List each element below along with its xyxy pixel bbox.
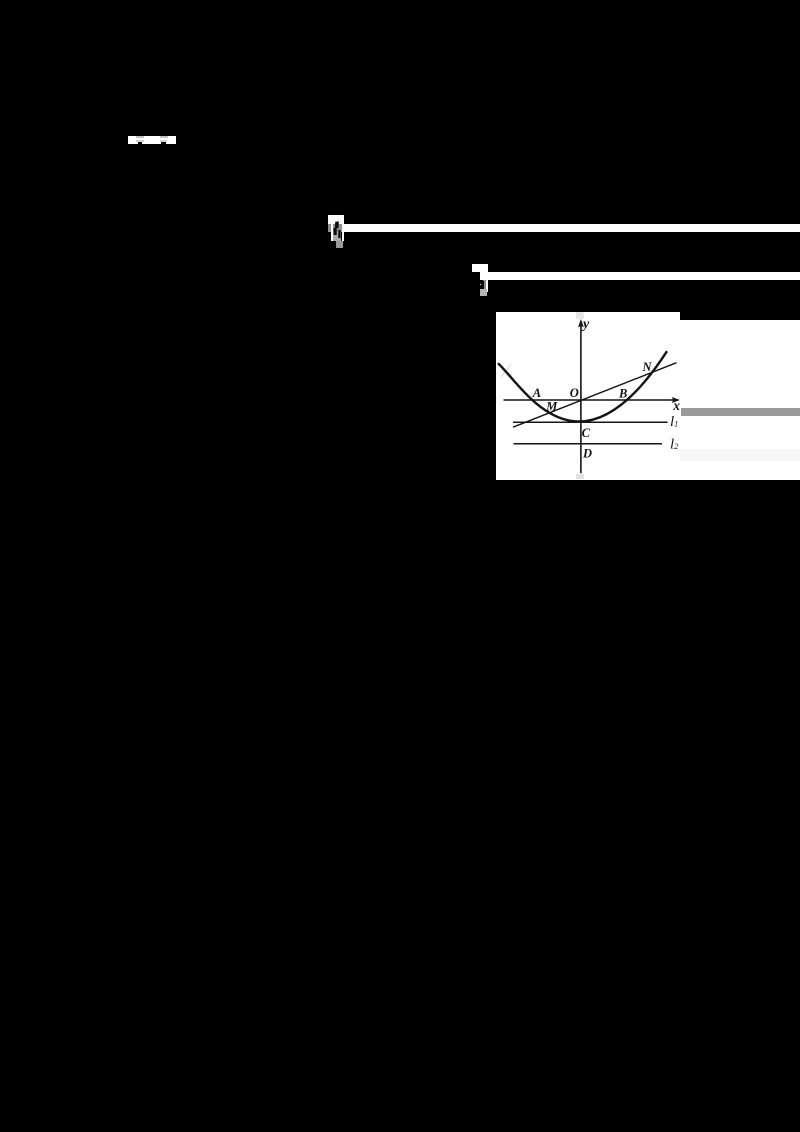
- band2 grey patch mid: [483, 280, 486, 289]
- graph white box right extension: [680, 320, 800, 480]
- band1 block white right column: [342, 215, 344, 240]
- faint scan ghost marks: [501, 364, 512, 377]
- graph white box left part: [496, 312, 680, 480]
- svg-text:l2: l2: [670, 436, 679, 452]
- top-left patch black notch 1: [138, 142, 142, 143]
- svg-text:O: O: [570, 386, 579, 400]
- band1 left block lower grey: [333, 232, 342, 241]
- top-left white fragment patch: [128, 136, 176, 144]
- svg-text:B: B: [618, 386, 627, 400]
- y-axis arrowhead: [578, 319, 584, 327]
- line l2: [514, 443, 662, 445]
- band2 grey patch lower: [480, 289, 487, 296]
- line l1: [513, 421, 667, 423]
- grey bar right: [681, 408, 800, 416]
- band2 left block white: [472, 264, 488, 273]
- top-left patch grey shade 1: [136, 140, 144, 143]
- band1 block black left notch: [328, 233, 330, 241]
- band1 left block grey: [328, 224, 342, 232]
- parabola: [498, 351, 667, 421]
- x-axis: [504, 399, 674, 401]
- top-left patch grey smudge 2: [160, 136, 168, 138]
- band2 horizontal white band: [480, 272, 800, 280]
- grey rect top of y-axis: [576, 312, 584, 319]
- band1 glyph fragment: [333, 220, 343, 239]
- band1 horizontal white band: [344, 224, 800, 232]
- band1 left block white stripe: [331, 215, 333, 241]
- svg-text:y: y: [581, 317, 590, 332]
- svg-text:M: M: [545, 399, 558, 413]
- svg-text:l1: l1: [670, 414, 678, 430]
- band1 block bottom grey tail: [336, 241, 343, 248]
- band2 glyph fragment: [480, 281, 484, 288]
- svg-text:x: x: [672, 398, 680, 413]
- band2 white stripe: [486, 272, 488, 292]
- top-left patch black notch 2: [161, 142, 165, 143]
- svg-text:C: C: [582, 426, 591, 440]
- x-axis arrowhead: [672, 397, 680, 403]
- top-left patch grey smudge 1: [136, 136, 144, 138]
- faint band right: [680, 449, 800, 461]
- secant line MN: [513, 362, 676, 426]
- band1 left block white: [328, 215, 344, 224]
- band2 glyph white dot: [480, 284, 481, 285]
- graph drawing svg: [496, 312, 800, 480]
- y-axis: [580, 325, 582, 472]
- grey rect bottom of y-axis: [576, 474, 584, 479]
- svg-text:N: N: [642, 360, 653, 374]
- top-left patch grey shade 2: [160, 140, 167, 143]
- svg-text:D: D: [582, 446, 592, 460]
- svg-text:A: A: [532, 386, 541, 400]
